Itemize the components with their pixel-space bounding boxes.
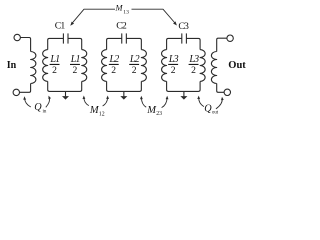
M12 left arrow bbox=[82, 96, 88, 106]
inductor input coupling coil bbox=[31, 52, 36, 84]
Qin left arrow bbox=[23, 96, 31, 107]
svg-text:M: M bbox=[115, 4, 124, 13]
wire resonator 3 top-left segment bbox=[167, 38, 182, 49]
M13 pointer line right bbox=[132, 9, 176, 23]
wire resonator 2 bottom bbox=[107, 81, 142, 91]
wire output bottom bbox=[217, 84, 224, 93]
value label L1/2 (left) bbox=[49, 54, 59, 76]
ground stub resonator 1 bbox=[65, 91, 67, 96]
wire resonator 3 top-right segment bbox=[186, 38, 200, 49]
Qin right arrow bbox=[46, 96, 51, 108]
wire resonator 1 top-right segment bbox=[68, 38, 82, 49]
output port top terminal bbox=[227, 35, 233, 41]
M23 left arrow bbox=[140, 96, 146, 107]
ground stub resonator 3 bbox=[183, 91, 185, 96]
svg-text:23: 23 bbox=[156, 111, 162, 117]
inductor L3/2 right half bbox=[200, 50, 205, 82]
M23 right arrow bbox=[162, 96, 169, 108]
svg-text:13: 13 bbox=[123, 9, 129, 15]
ground resonator 2 bbox=[120, 96, 127, 100]
capacitor C1 bbox=[63, 33, 68, 43]
M13 arrowhead to C3 bbox=[173, 21, 177, 25]
ground resonator 1 bbox=[62, 96, 69, 100]
svg-text:C2: C2 bbox=[116, 21, 127, 32]
svg-text:in: in bbox=[43, 110, 47, 115]
svg-text:C3: C3 bbox=[178, 21, 189, 32]
svg-text:Out: Out bbox=[228, 60, 246, 71]
wire input top bbox=[20, 38, 30, 52]
inductor L3/2 left half bbox=[162, 50, 167, 82]
inductor output coupling coil bbox=[211, 52, 216, 84]
wire input bottom bbox=[20, 84, 31, 93]
svg-text:2: 2 bbox=[191, 65, 196, 76]
capacitor C2 bbox=[122, 33, 127, 43]
wire resonator 2 top-left segment bbox=[107, 38, 122, 49]
M12 right arrow bbox=[103, 96, 109, 107]
Qout right arrow bbox=[216, 97, 224, 109]
inductor L1/2 right half bbox=[82, 50, 87, 82]
wire resonator 1 bottom bbox=[48, 81, 82, 91]
M13 pointer line left bbox=[72, 9, 115, 23]
svg-text:L2: L2 bbox=[129, 54, 140, 65]
wire resonator 3 bottom bbox=[167, 81, 201, 91]
input port bottom terminal bbox=[13, 89, 19, 95]
input port top terminal bbox=[14, 34, 20, 40]
svg-text:L3: L3 bbox=[168, 54, 179, 65]
wire output top bbox=[217, 38, 227, 51]
wire resonator 1 top-left segment bbox=[48, 38, 64, 49]
svg-text:L3: L3 bbox=[188, 54, 199, 65]
output port bottom terminal bbox=[224, 89, 230, 95]
value label L2/2 (left) bbox=[109, 54, 120, 76]
svg-text:L2: L2 bbox=[109, 54, 120, 65]
svg-text:2: 2 bbox=[111, 65, 116, 76]
ground stub resonator 2 bbox=[123, 91, 125, 96]
svg-text:In: In bbox=[7, 60, 17, 71]
svg-text:out: out bbox=[212, 111, 219, 116]
svg-text:2: 2 bbox=[132, 65, 137, 76]
Qout left arrow bbox=[197, 96, 204, 107]
svg-text:12: 12 bbox=[99, 111, 105, 117]
svg-text:L1: L1 bbox=[70, 54, 80, 65]
value label L2/2 (right) bbox=[129, 54, 140, 76]
inductor L2/2 left half bbox=[102, 50, 107, 82]
capacitor C3 bbox=[182, 33, 187, 43]
svg-text:C1: C1 bbox=[55, 20, 66, 31]
ground resonator 3 bbox=[180, 96, 187, 100]
svg-text:Q: Q bbox=[34, 102, 42, 113]
svg-text:L1: L1 bbox=[49, 54, 59, 65]
svg-text:2: 2 bbox=[171, 65, 176, 76]
svg-text:2: 2 bbox=[73, 65, 78, 76]
svg-text:2: 2 bbox=[52, 65, 57, 76]
value label L1/2 (right) bbox=[70, 54, 80, 76]
value label L3/2 (right) bbox=[188, 54, 199, 76]
inductor L1/2 left half bbox=[43, 50, 48, 82]
value label L3/2 (left) bbox=[168, 54, 179, 76]
wire resonator 2 top-right segment bbox=[126, 38, 141, 49]
inductor L2/2 right half bbox=[141, 50, 146, 82]
M13 arrowhead to C1 bbox=[70, 22, 74, 26]
